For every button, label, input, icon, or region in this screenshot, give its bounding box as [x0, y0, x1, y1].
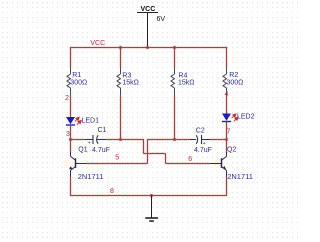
LED LED1	[66, 117, 75, 125]
ground	[145, 196, 158, 222]
transistor Q2	[211, 152, 227, 177]
wire net5 C1 to R3 junction and staircase to Q2 base	[106, 139, 211, 164]
svg-text:300Ω: 300Ω	[70, 79, 87, 86]
svg-text:R2: R2	[229, 72, 238, 79]
svg-text:+: +	[88, 141, 91, 147]
wire bottom emitter rail	[70, 195, 227, 197]
junction rail R4	[173, 46, 176, 49]
svg-text:Q2: Q2	[227, 146, 236, 153]
resistor R3	[117, 68, 121, 95]
svg-text:Q1: Q1	[78, 146, 87, 153]
wire R3 branch top	[120, 47, 122, 68]
svg-text:15kΩ: 15kΩ	[178, 80, 195, 87]
wire R1 branch top	[70, 47, 72, 68]
wire Q1 emitter down	[70, 177, 72, 196]
LED2 emission arrows	[232, 114, 239, 122]
wire R2 to LED2	[226, 95, 228, 114]
wire node3 to C1	[71, 139, 86, 141]
junction net6 R4	[173, 138, 176, 141]
svg-text:6: 6	[188, 156, 192, 163]
svg-text:2N1711: 2N1711	[227, 172, 253, 181]
svg-text:C2: C2	[196, 128, 205, 135]
junction node 7	[225, 138, 228, 141]
junction node 3	[69, 138, 72, 141]
svg-text:R4: R4	[178, 72, 187, 79]
wire net6 C2 to R4 junction and staircase to Q1 base	[86, 139, 190, 164]
svg-text:2N1711: 2N1711	[78, 172, 104, 181]
svg-text:C1: C1	[98, 127, 107, 134]
capacitor C2	[190, 135, 211, 144]
wire C2 to node7	[211, 139, 227, 141]
wire R2 branch top	[226, 47, 228, 68]
LED LED2	[222, 114, 231, 122]
svg-text:R1: R1	[72, 72, 81, 79]
junction net5 R3	[119, 138, 122, 141]
wire R1 to LED1	[70, 95, 72, 117]
resistor R2	[223, 68, 227, 95]
svg-text:2: 2	[65, 95, 69, 102]
svg-text:300Ω: 300Ω	[227, 79, 244, 86]
junction rail VCC	[146, 46, 149, 49]
wire R3 to net5	[120, 95, 122, 140]
svg-text:VCC: VCC	[90, 40, 105, 47]
svg-text:5: 5	[115, 155, 119, 162]
wire Q2 emitter down	[226, 177, 228, 196]
svg-text:3: 3	[66, 131, 70, 138]
wire R4 branch top	[174, 47, 176, 68]
svg-text:6V: 6V	[157, 16, 166, 23]
svg-text:R3: R3	[122, 72, 131, 79]
resistor R4	[171, 68, 175, 95]
wire top VCC rail	[70, 47, 227, 49]
svg-text:LED2: LED2	[237, 114, 255, 121]
svg-text:4.7uF: 4.7uF	[92, 147, 110, 154]
junction ground	[150, 194, 153, 197]
svg-text:VCC: VCC	[141, 6, 156, 13]
wire LED1 to Q1 collector	[70, 126, 72, 153]
svg-text:4.7uF: 4.7uF	[194, 147, 212, 154]
resistor R1	[67, 68, 71, 95]
LED1 emission arrows	[75, 117, 82, 125]
wire LED2 to Q2 collector	[226, 122, 228, 153]
transistor Q1	[63, 152, 86, 177]
svg-text:8: 8	[110, 188, 114, 195]
svg-text:7: 7	[227, 128, 231, 135]
capacitor C1	[85, 135, 106, 144]
VCC power symbol	[137, 13, 158, 48]
svg-text:LED1: LED1	[82, 118, 100, 125]
svg-text:15kΩ: 15kΩ	[122, 80, 139, 87]
junction rail R3	[119, 46, 122, 49]
wire R4 to net6	[174, 95, 176, 140]
